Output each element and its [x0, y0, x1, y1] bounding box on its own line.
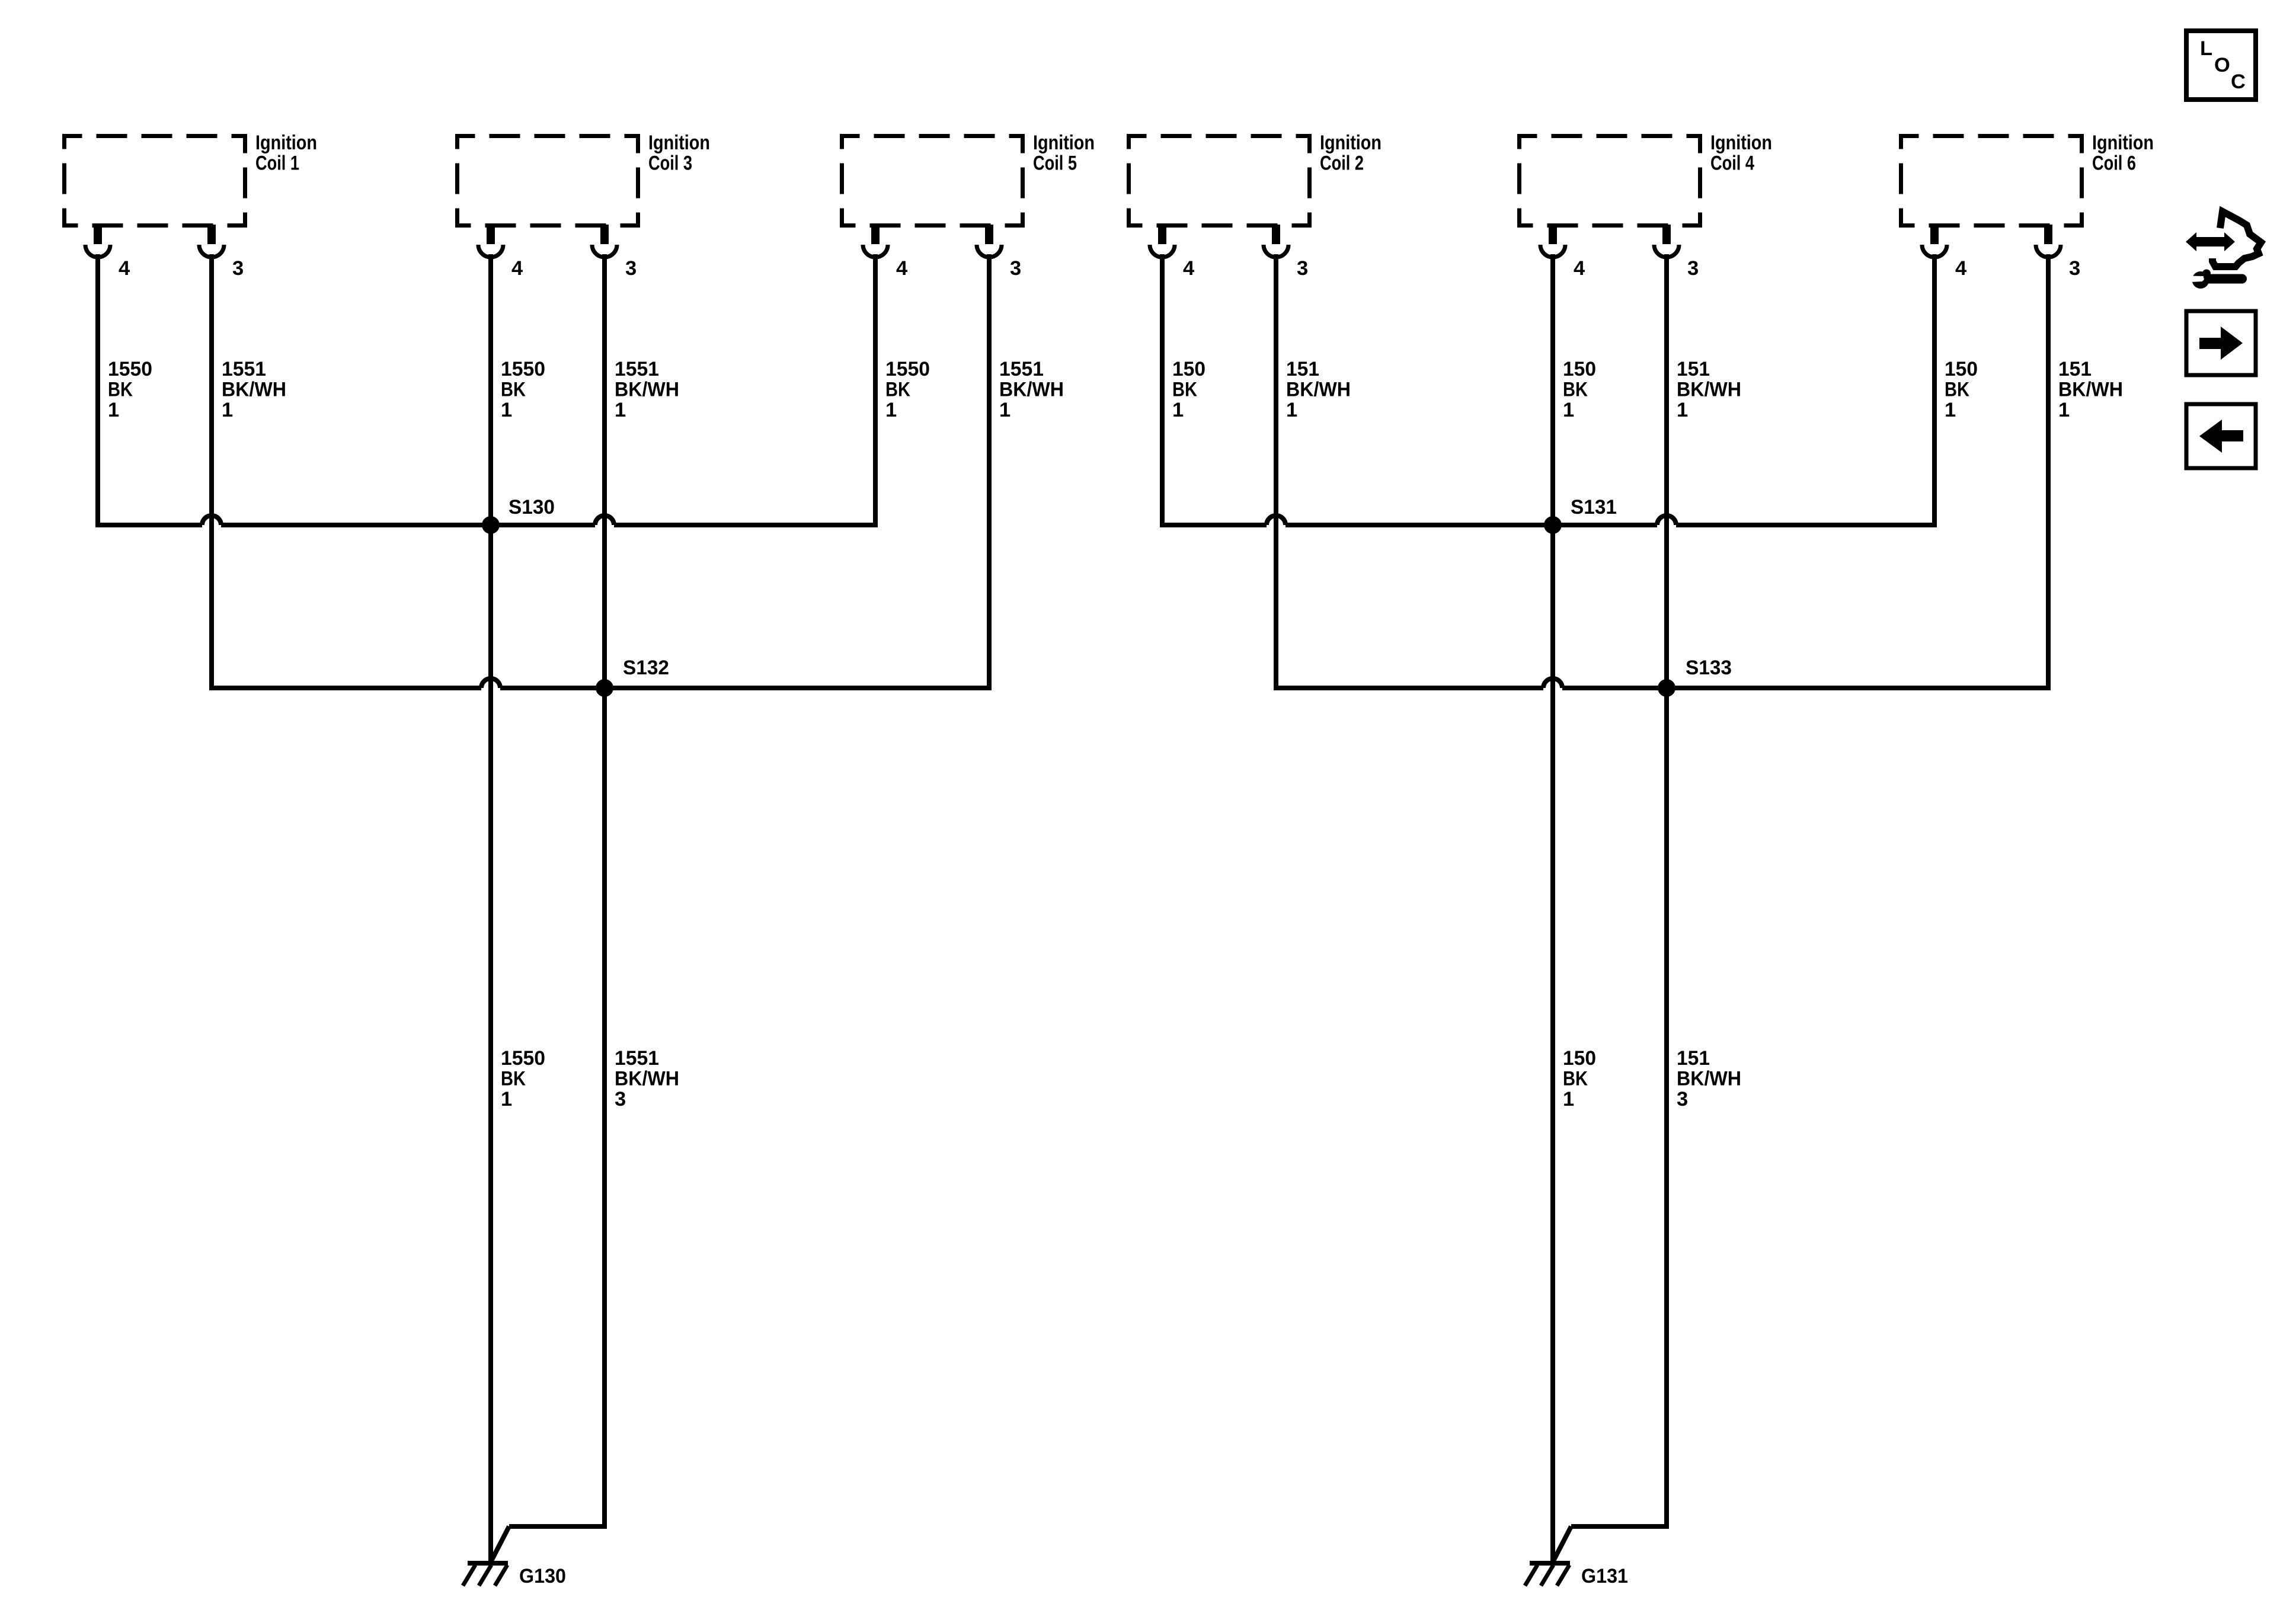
label Ignition Coil 3 [648, 132, 710, 175]
wire elbow from G130 second trunk to ground point [491, 1526, 605, 1561]
connector pin 4 of coil 2 [1150, 225, 1175, 257]
bus wire S130 (1550 BK) with hops over pin-3 wires [98, 516, 875, 525]
trunk wire 1550 BK from S130 to G130 [488, 525, 493, 1561]
svg-text:BK/WH: BK/WH [615, 1068, 679, 1090]
trunk wire 151 BK/WH from S133 down [1664, 688, 1669, 1529]
svg-text:Ignition: Ignition [2092, 132, 2154, 154]
svg-text:151: 151 [1677, 1047, 1710, 1070]
service/adjust icon: double arrow, hand outline, wrench [2186, 212, 2261, 289]
svg-text:1: 1 [1563, 1088, 1574, 1110]
svg-text:S132: S132 [623, 657, 669, 679]
ignition coil 6 (dashed box) [1901, 136, 2082, 226]
svg-text:3: 3 [1010, 257, 1021, 280]
svg-text:Coil 1: Coil 1 [255, 152, 299, 175]
label G130 [519, 1565, 566, 1587]
connector pin 4 of coil 1 [85, 225, 110, 257]
connector pin 4 of coil 3 [478, 225, 503, 257]
label Ignition Coil 2 [1320, 132, 1382, 175]
svg-text:1: 1 [501, 1088, 512, 1110]
svg-text:3: 3 [232, 257, 244, 280]
connector pin 3 of coil 2 [1264, 225, 1288, 257]
svg-text:BK: BK [108, 379, 133, 401]
wire label 150 BK 1 [1563, 358, 1596, 421]
trunk wire 1551 BK/WH from S132 down [602, 688, 607, 1529]
wire coil1 pin4 1550 BK to S130 [95, 254, 100, 527]
svg-text:BK: BK [501, 379, 526, 401]
wire label 151 BK/WH 3 (trunk) [1677, 1047, 1741, 1110]
svg-text:1: 1 [1286, 399, 1297, 421]
trunk wire 150 BK from S131 to G131 [1550, 525, 1555, 1561]
svg-text:C: C [2231, 71, 2246, 93]
svg-text:1: 1 [1677, 399, 1688, 421]
wire label 150 BK 1 (trunk) [1563, 1047, 1596, 1110]
ground symbol G131 [1525, 1563, 1570, 1586]
connector pin 3 of coil 1 [199, 225, 224, 257]
svg-text:Ignition: Ignition [1710, 132, 1772, 154]
wire label 150 BK 1 [1172, 358, 1205, 421]
pin number 3 label [2069, 257, 2080, 280]
pin number 3 label [1687, 257, 1699, 280]
svg-text:BK/WH: BK/WH [615, 379, 679, 401]
svg-text:BK/WH: BK/WH [1677, 379, 1741, 401]
ignition coil 5 (dashed box) [842, 136, 1023, 226]
svg-text:BK/WH: BK/WH [1286, 379, 1351, 401]
wire coil6 pin4 150 BK to S131 [1932, 254, 1937, 527]
pin number 3 label [1297, 257, 1308, 280]
splice S132 (junction dot) [596, 679, 613, 697]
wire label 1550 BK 1 (trunk) [501, 1047, 545, 1110]
pin number 4 label [896, 257, 907, 280]
wire coil1 pin3 1551 BK/WH to S132 [209, 254, 214, 690]
svg-text:1: 1 [1945, 399, 1956, 421]
wire label 1551 BK/WH 1 [615, 358, 679, 421]
svg-text:BK/WH: BK/WH [1677, 1068, 1741, 1090]
pin number 4 label [511, 257, 523, 280]
wire label 150 BK 1 [1945, 358, 1978, 421]
svg-text:BK/WH: BK/WH [222, 379, 286, 401]
connector pin 4 of coil 6 [1922, 225, 1947, 257]
svg-text:S131: S131 [1571, 496, 1617, 518]
svg-text:Ignition: Ignition [255, 132, 317, 154]
connector pin 3 of coil 6 [2036, 225, 2061, 257]
wire label 1551 BK/WH 1 [222, 358, 286, 421]
svg-text:S130: S130 [509, 496, 555, 518]
svg-text:1: 1 [885, 399, 897, 421]
wire label 1550 BK 1 [885, 358, 930, 421]
svg-text:BK: BK [501, 1068, 526, 1090]
svg-text:1: 1 [999, 399, 1011, 421]
svg-text:3: 3 [2069, 257, 2080, 280]
svg-text:BK: BK [885, 379, 910, 401]
svg-text:1551: 1551 [615, 358, 659, 380]
wire coil5 pin4 1550 BK to S130 [873, 254, 878, 527]
label S133 [1686, 657, 1732, 679]
wire coil4 pin4 150 BK to S131 [1550, 254, 1555, 524]
connector pin 4 of coil 5 [863, 225, 888, 257]
wire label 1551 BK/WH 1 [999, 358, 1064, 421]
wire label 1551 BK/WH 3 (trunk) [615, 1047, 679, 1110]
svg-text:1550: 1550 [108, 358, 152, 380]
svg-text:1: 1 [108, 399, 119, 421]
svg-text:Coil 5: Coil 5 [1033, 152, 1077, 175]
wire coil6 pin3 151 BK/WH to S133 [2046, 254, 2051, 690]
splice S131 (junction dot) [1544, 516, 1562, 534]
ignition coil 4 (dashed box) [1520, 136, 1700, 226]
connector pin 3 of coil 4 [1654, 225, 1679, 257]
svg-text:BK: BK [1172, 379, 1197, 401]
bus wire S131 (150 BK) with hops over pin-3 wires [1162, 516, 1934, 525]
svg-text:L: L [2200, 37, 2212, 60]
svg-text:G130: G130 [519, 1565, 566, 1587]
svg-text:150: 150 [1172, 358, 1205, 380]
svg-text:150: 150 [1563, 358, 1596, 380]
connector pin 3 of coil 5 [977, 225, 1002, 257]
wire label 1550 BK 1 [501, 358, 545, 421]
splice S133 (junction dot) [1658, 679, 1675, 697]
pin number 4 label [119, 257, 130, 280]
pin number 4 label [1955, 257, 1966, 280]
svg-text:1: 1 [1563, 399, 1574, 421]
svg-text:BK: BK [1945, 379, 1969, 401]
pin number 3 label [1010, 257, 1021, 280]
label S130 [509, 496, 555, 518]
svg-text:S133: S133 [1686, 657, 1732, 679]
wire coil4 pin3 151 BK/WH to S133 [1664, 254, 1669, 687]
bus wire S133 (151 BK/WH) with hop over 150 trunk [1276, 678, 2048, 688]
svg-text:3: 3 [615, 1088, 626, 1110]
svg-text:Coil 4: Coil 4 [1710, 152, 1754, 175]
svg-text:4: 4 [896, 257, 907, 280]
svg-text:1550: 1550 [885, 358, 930, 380]
label Ignition Coil 1 [255, 132, 317, 175]
svg-text:4: 4 [119, 257, 130, 280]
svg-text:3: 3 [1687, 257, 1699, 280]
svg-text:1551: 1551 [999, 358, 1044, 380]
wire label 151 BK/WH 1 [1677, 358, 1741, 421]
svg-text:1: 1 [615, 399, 626, 421]
forward arrow box icon [2186, 311, 2256, 375]
svg-text:1551: 1551 [615, 1047, 659, 1070]
wire coil3 pin3 1551 BK/WH to S132 [602, 254, 607, 687]
svg-text:G131: G131 [1581, 1565, 1628, 1587]
svg-text:Ignition: Ignition [1320, 132, 1382, 154]
ignition coil 1 (dashed box) [65, 136, 245, 226]
svg-text:Coil 3: Coil 3 [648, 152, 692, 175]
svg-text:4: 4 [1955, 257, 1966, 280]
label S132 [623, 657, 669, 679]
wire coil2 pin3 151 BK/WH to S133 [1274, 254, 1278, 690]
svg-text:O: O [2214, 54, 2230, 76]
svg-text:1: 1 [501, 399, 512, 421]
label S131 [1571, 496, 1617, 518]
wire label 151 BK/WH 1 [1286, 358, 1351, 421]
LOC reference box icon [2186, 31, 2256, 100]
pin number 3 label [232, 257, 244, 280]
svg-text:3: 3 [1297, 257, 1308, 280]
pin number 4 label [1574, 257, 1585, 280]
svg-text:4: 4 [1183, 257, 1194, 280]
svg-text:Coil 6: Coil 6 [2092, 152, 2136, 175]
splice S130 (junction dot) [482, 516, 500, 534]
label Ignition Coil 4 [1710, 132, 1772, 175]
svg-text:BK/WH: BK/WH [999, 379, 1064, 401]
pin number 3 label [625, 257, 637, 280]
svg-text:151: 151 [1286, 358, 1319, 380]
svg-text:3: 3 [1677, 1088, 1688, 1110]
connector pin 4 of coil 4 [1540, 225, 1565, 257]
wire coil5 pin3 1551 BK/WH to S132 [987, 254, 992, 690]
label G131 [1581, 1565, 1628, 1587]
ignition coil 3 (dashed box) [458, 136, 638, 226]
connector pin 3 of coil 3 [592, 225, 617, 257]
svg-text:4: 4 [511, 257, 523, 280]
label Ignition Coil 6 [2092, 132, 2154, 175]
svg-text:4: 4 [1574, 257, 1585, 280]
svg-text:Ignition: Ignition [648, 132, 710, 154]
bus wire S132 (1551 BK/WH) with hop over 1550 trunk [212, 678, 989, 688]
svg-text:Coil 2: Coil 2 [1320, 152, 1364, 175]
pin number 4 label [1183, 257, 1194, 280]
svg-text:1550: 1550 [501, 1047, 545, 1070]
svg-text:150: 150 [1563, 1047, 1596, 1070]
back arrow box icon [2186, 404, 2256, 468]
svg-text:BK: BK [1563, 1068, 1588, 1090]
ignition coil 2 (dashed box) [1129, 136, 1310, 226]
wire coil2 pin4 150 BK to S131 [1160, 254, 1165, 527]
svg-text:151: 151 [1677, 358, 1710, 380]
wire label 151 BK/WH 1 [2058, 358, 2123, 421]
svg-text:1551: 1551 [222, 358, 266, 380]
wire elbow from G131 second trunk to ground point [1553, 1526, 1667, 1561]
svg-text:1: 1 [222, 399, 233, 421]
ground symbol G130 [463, 1563, 508, 1586]
wire coil3 pin4 1550 BK to S130 [488, 254, 493, 524]
svg-text:BK: BK [1563, 379, 1588, 401]
svg-text:1550: 1550 [501, 358, 545, 380]
svg-text:1: 1 [1172, 399, 1184, 421]
svg-text:3: 3 [625, 257, 637, 280]
svg-text:Ignition: Ignition [1033, 132, 1095, 154]
label Ignition Coil 5 [1033, 132, 1095, 175]
svg-text:1: 1 [2058, 399, 2070, 421]
svg-text:151: 151 [2058, 358, 2092, 380]
svg-text:BK/WH: BK/WH [2058, 379, 2123, 401]
wire label 1550 BK 1 [108, 358, 152, 421]
svg-text:150: 150 [1945, 358, 1978, 380]
